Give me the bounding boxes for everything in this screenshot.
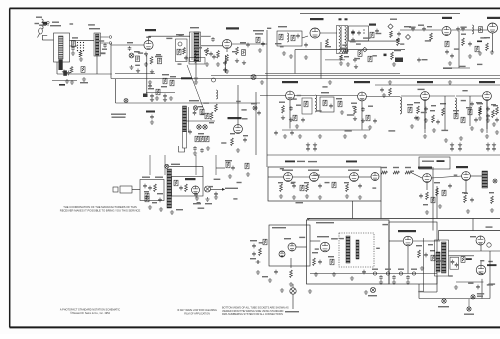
svg-text:RMA NUMBERING SYSTEM FOR ALL C: RMA NUMBERING SYSTEM FOR ALL CONNECTIONS (222, 313, 283, 316)
svg-text:RECEIVER MAKES IT POSSIBLE TO: RECEIVER MAKES IT POSSIBLE TO BRING YOU … (60, 209, 141, 213)
svg-text:©Howard W. Sams & Co., Inc. 19: ©Howard W. Sams & Co., Inc. 1954 (70, 312, 110, 315)
svg-text:FILM OF APPLICATION: FILM OF APPLICATION (184, 312, 210, 315)
svg-text:THE COORDINATION OF THE MANUFA: THE COORDINATION OF THE MANUFACTURERS OF… (63, 205, 137, 209)
